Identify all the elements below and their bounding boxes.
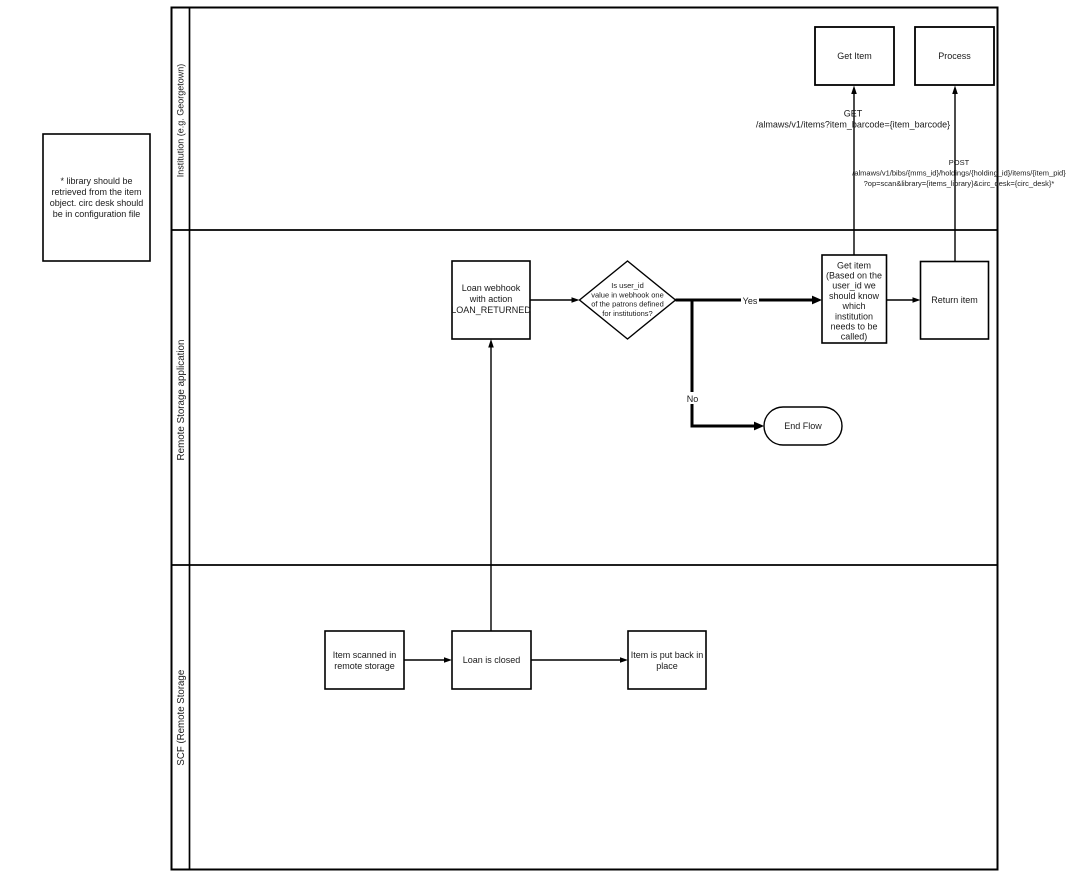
svg-text:user_id we: user_id we [832,281,876,291]
svg-text:Item is put back in: Item is put back in [631,650,704,660]
connector: Item scanned -> Loan is closed [404,657,452,663]
process box: Process (top lane) [915,27,994,85]
svg-text:Get Item: Get Item [837,51,872,61]
terminator: End Flow [764,407,842,445]
swimlane outer frame [172,8,998,870]
connector: No branch down then right to End Flow (thick) [692,301,764,430]
svg-text:End Flow: End Flow [784,421,822,431]
svg-text:should know: should know [829,291,880,301]
note box: library / circ desk configuration [43,134,150,261]
label: No [684,392,701,404]
label: Yes [741,294,759,306]
svg-text:which: which [841,301,865,311]
label: POST /almaws/v1/bibs/... [852,158,1066,188]
svg-text:called): called) [841,332,868,342]
connector: diamond -> Get item (Yes branch, thick) [676,296,823,305]
svg-text:for institutions?: for institutions? [602,309,652,318]
svg-text:Item scanned in: Item scanned in [333,650,397,660]
connector: Loan is closed -> Item is put back in place [531,657,628,663]
svg-text:Institution (e.g. Georgetown): Institution (e.g. Georgetown) [176,64,186,178]
svg-text:LOAN_RETURNED: LOAN_RETURNED [451,305,531,315]
svg-text:remote storage: remote storage [334,661,395,671]
svg-text:/almaws/v1/bibs/{mms_id}/holdi: /almaws/v1/bibs/{mms_id}/holdings/{holdi… [852,169,1066,178]
svg-text:Yes: Yes [743,296,758,306]
process box: Item scanned in remote storage [325,631,404,689]
lane divider 2 (Remote Storage application / SCF) [172,564,998,566]
svg-text:Return item: Return item [931,295,978,305]
svg-text:/almaws/v1/items?item_barcode=: /almaws/v1/items?item_barcode={item_barc… [756,120,950,130]
process box: Return item [921,262,989,340]
svg-text:Is user_id: Is user_id [611,281,644,290]
svg-text:retrieved from the item: retrieved from the item [51,187,141,197]
connector: Loan webhook -> decision diamond [530,297,580,303]
svg-text:Process: Process [938,51,971,61]
svg-text:Remote Storage application: Remote Storage application [176,340,187,461]
process box: Get Item (top lane) [815,27,894,85]
connector: Get item -> Get Item (vertical up) [851,86,857,256]
svg-text:institution: institution [835,311,873,321]
svg-text:SCF (Remote Storage: SCF (Remote Storage [176,670,187,766]
connector: Get item -> Return item [887,297,921,303]
process box: Loan is closed [452,631,531,689]
process box: Get item (Based on the user_id ...) [822,255,887,343]
svg-text:of the patrons defined: of the patrons defined [591,300,664,309]
svg-text:Loan is closed: Loan is closed [463,655,521,665]
svg-text:GET: GET [844,109,863,119]
process box: Loan webhook with action LOAN_RETURNED [451,261,531,339]
label: GET /almaws/v1/items?item_barcode={item_barcode} [756,109,950,130]
svg-text:Loan webhook: Loan webhook [462,283,521,293]
svg-text:value in webhook one: value in webhook one [591,290,664,299]
svg-text:* library should be: * library should be [60,176,132,186]
svg-text:(Based on the: (Based on the [826,271,882,281]
lane divider 1 (Institution / Remote Storage application) [172,229,998,231]
connector: Return item -> Process (vertical up) [952,86,958,262]
svg-text:be in configuration file: be in configuration file [53,209,141,219]
svg-text:needs to be: needs to be [830,322,877,332]
decision diamond: Is user_id value in webhook one of the patrons defined for institutions? [580,261,676,339]
svg-text:No: No [687,394,699,404]
connector: Loan is closed -> Loan webhook (vertical up) [488,339,494,631]
svg-text:place: place [656,661,678,671]
svg-text:with action: with action [469,294,513,304]
svg-text:POST: POST [949,158,970,167]
svg-text:object. circ desk should: object. circ desk should [50,198,144,208]
lane label column divider [189,8,191,870]
svg-text:?op=scan&library={items_librar: ?op=scan&library={items_library}&circ_de… [864,179,1055,188]
svg-text:Get item: Get item [837,260,871,270]
process box: Item is put back in place [628,631,706,689]
